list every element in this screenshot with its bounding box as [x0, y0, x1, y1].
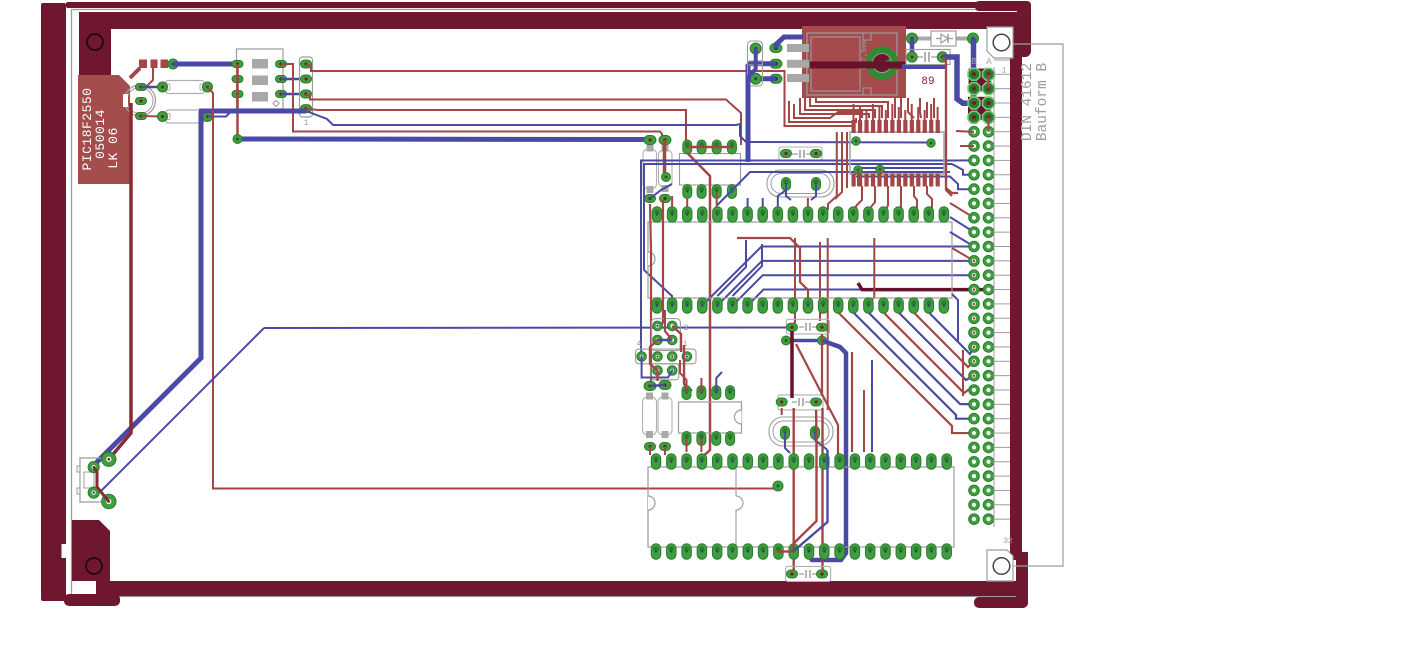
wire [208, 112, 232, 117]
wire [716, 372, 722, 393]
wire [827, 238, 829, 410]
capacitor C10 outline [786, 319, 829, 334]
svg-text:LK 06: LK 06 [106, 127, 121, 169]
wire [199, 109, 306, 114]
wire [908, 98, 914, 118]
frame top thin strip [66, 2, 1006, 8]
frame top bar [79, 12, 1019, 29]
header JP1 pad 1 [232, 61, 243, 68]
pad [644, 136, 656, 145]
pad [781, 150, 792, 158]
regulator VR1 pour [802, 26, 906, 98]
label 1 [683, 340, 688, 349]
ic IC2 pads top [682, 386, 735, 400]
label B [971, 57, 977, 67]
wire [929, 313, 974, 354]
crystal Q1 pad 1 [136, 84, 147, 91]
pad [787, 570, 798, 578]
wire [306, 111, 740, 125]
ic IC1 pads bottom [652, 298, 948, 314]
pad [782, 178, 821, 191]
header JP2 pads bottom [683, 185, 737, 199]
wire [900, 186, 902, 210]
svg-text:1: 1 [304, 119, 309, 128]
wire [786, 184, 791, 200]
wire [777, 550, 792, 552]
header JP5 pads [653, 366, 677, 376]
wire [740, 124, 929, 143]
ic U2 outline [850, 132, 944, 174]
wire [94, 467, 109, 501]
label 2 [684, 324, 689, 333]
din X2 pin lines [994, 67, 1010, 527]
wire [306, 109, 687, 147]
frame top-left corner block [79, 12, 111, 79]
ic IC3 pads bottom [651, 544, 951, 560]
wire [828, 132, 837, 210]
frame right bar [1010, 28, 1022, 560]
capacitor C2 outline [659, 145, 673, 193]
diode D1 outline [931, 31, 956, 46]
mount hole top [993, 34, 1010, 51]
silkscreen text PIC18F2550 [80, 87, 95, 170]
header JP2 pads top [683, 140, 737, 154]
wire [960, 145, 974, 147]
wire [642, 357, 673, 378]
wire [717, 172, 950, 205]
header JP1 pad 5 [276, 76, 287, 83]
resistor R1 outline [162, 81, 208, 94]
pad [770, 59, 782, 68]
wire [856, 177, 974, 190]
wire [672, 190, 808, 207]
wire [805, 98, 875, 118]
wire [776, 37, 803, 48]
wire [306, 94, 741, 145]
wire [819, 242, 821, 321]
wire [920, 98, 921, 118]
wire [910, 39, 915, 58]
pad [750, 43, 761, 54]
header JP1 hole 1 [252, 59, 268, 69]
wire [737, 238, 808, 301]
wire [94, 328, 264, 493]
wire [971, 39, 977, 104]
node pad [168, 59, 178, 69]
din X2 pour block 1 [969, 69, 992, 92]
crystal Q3 outline [769, 417, 833, 446]
wire [851, 352, 853, 452]
ic U2 pads bottom [852, 174, 940, 187]
wire [933, 98, 935, 118]
wire [173, 62, 237, 67]
wire [863, 390, 865, 452]
header JP1 outline [237, 49, 284, 109]
wire [943, 57, 953, 196]
ic IC1 pads top [652, 207, 948, 223]
via [927, 139, 935, 147]
wire [914, 313, 974, 367]
pad [776, 398, 787, 406]
wire [950, 203, 974, 218]
header JP1 hole 3 [252, 92, 268, 102]
wire [793, 450, 828, 552]
via [876, 165, 884, 173]
mounting hole H1 [87, 34, 103, 50]
label h17.5mm [861, 40, 869, 69]
wire [835, 132, 842, 199]
silkscreen text LK 06 [106, 127, 121, 169]
wire [884, 313, 974, 393]
wire [717, 240, 746, 296]
header JP4 pads [637, 352, 692, 362]
mounting hole H2 [86, 558, 102, 574]
pad [907, 52, 917, 62]
wire [857, 170, 859, 186]
pad [817, 323, 828, 331]
pad [645, 195, 656, 203]
wire [658, 339, 673, 342]
wire [869, 238, 874, 303]
wire [811, 184, 816, 200]
capacitor C9 outline [906, 50, 950, 65]
label pin1 [1002, 67, 1007, 76]
frame left bar [41, 3, 66, 601]
pad [968, 33, 979, 44]
wire [956, 130, 974, 133]
via [233, 135, 242, 144]
header SV1 pad 2 [301, 75, 312, 83]
pad [907, 33, 918, 44]
header SV1 pad 3 [301, 90, 312, 98]
wire [141, 115, 162, 118]
regulator VR1 hole [866, 47, 899, 80]
wire [146, 68, 153, 87]
silkscreen label block [78, 75, 130, 184]
usb X1 pad 1 [102, 452, 116, 466]
svg-text:DIN 41612: DIN 41612 [1020, 63, 1036, 141]
header JP4 outline [636, 349, 697, 364]
via [852, 137, 860, 145]
label A [986, 57, 992, 67]
capacitor C5 outline [643, 393, 657, 439]
via [782, 336, 827, 345]
pad [811, 398, 822, 406]
pad [781, 426, 820, 439]
crystal Q1 pad 2 [136, 98, 147, 105]
pad [770, 44, 782, 53]
wire [748, 76, 776, 81]
wire [796, 344, 838, 458]
wire [821, 408, 823, 574]
crystal Q2 outline [767, 170, 834, 197]
pad [817, 570, 828, 578]
wire [858, 283, 989, 290]
capacitor C4 outline [748, 41, 763, 86]
resistor R2 outline [162, 110, 208, 123]
frame bottom-right corner [974, 552, 1028, 608]
wire [786, 339, 822, 343]
wire [821, 334, 823, 396]
label pin32 [1003, 537, 1013, 546]
wire [871, 360, 873, 452]
wire [141, 86, 162, 89]
pad [787, 323, 798, 331]
wire [927, 186, 932, 210]
mount hole bottom [993, 558, 1010, 575]
wire [644, 164, 952, 302]
pad [660, 443, 671, 451]
wire [660, 200, 663, 328]
frame left bar notch [62, 544, 68, 558]
svg-text:1: 1 [1002, 67, 1007, 76]
regulator VR1 lead 3 [787, 74, 809, 82]
wire [109, 103, 131, 459]
pad [937, 52, 947, 62]
wire [816, 98, 888, 118]
wire [650, 385, 665, 386]
header JP2 outline [680, 154, 741, 186]
wire [748, 290, 974, 306]
frame bottom-left corner block [72, 520, 110, 581]
header JP1 hole 2 [252, 76, 268, 86]
svg-text:4: 4 [637, 340, 642, 349]
wire [641, 161, 955, 357]
via [854, 166, 862, 174]
din X2 pads rows 5-32 [969, 126, 994, 524]
din X2 text [1020, 63, 1051, 142]
wire [900, 94, 902, 118]
wire [748, 49, 756, 88]
wire [700, 378, 702, 393]
wire [871, 186, 875, 207]
wire [700, 439, 702, 453]
resistor R2 pad R [203, 112, 213, 122]
wire [781, 408, 783, 415]
capacitor C6 outline [658, 393, 672, 439]
pad [773, 481, 783, 491]
wire [785, 433, 790, 453]
frame left foot [64, 594, 120, 606]
crystal Q1 pad 3 [136, 113, 147, 120]
regulator VR1 lead 2 [787, 60, 809, 68]
wire [810, 98, 882, 118]
header JP1 pad 3 [232, 91, 243, 98]
wire [665, 310, 672, 340]
wire [854, 313, 974, 419]
wire [800, 98, 869, 118]
mount pad top [987, 27, 1013, 58]
wire [987, 117, 989, 132]
pad [660, 195, 671, 203]
svg-text:2: 2 [684, 324, 689, 333]
usb X1 pad 3 [88, 487, 99, 498]
via [662, 173, 671, 182]
din X2 pour block 2 [968, 97, 991, 120]
wire [943, 57, 975, 103]
din X2 outline [994, 44, 1063, 566]
smd pads LED [139, 60, 168, 69]
wire [281, 64, 662, 140]
capacitor C3 outline [779, 147, 822, 161]
wire [748, 61, 776, 66]
wire [902, 64, 945, 69]
svg-text:32: 32 [1003, 537, 1013, 546]
wire [952, 294, 958, 342]
wire [1013, 565, 1063, 567]
label 89 [921, 76, 934, 88]
wire [790, 331, 794, 398]
frame bottom bar [96, 581, 1018, 596]
regulator VR1 lead 1 [787, 44, 809, 52]
usb X1 pad 2 [88, 462, 99, 473]
ic IC3 pads top [651, 454, 951, 470]
wire [839, 313, 974, 433]
pad [811, 150, 822, 158]
wire [663, 140, 667, 177]
wire [281, 93, 306, 96]
header JP1 pad 6 [276, 91, 287, 98]
wire [955, 159, 974, 161]
wire [879, 170, 881, 187]
wire [702, 247, 974, 306]
wire [208, 87, 779, 489]
svg-text:Bauform B: Bauform B [1035, 63, 1051, 142]
silkscreen text 050014 [93, 109, 108, 159]
wire [792, 410, 817, 552]
header SV1 pad 4 [301, 105, 312, 113]
wire [236, 64, 239, 139]
wire [306, 64, 785, 99]
wire [810, 62, 906, 69]
wire [846, 132, 848, 188]
wire [899, 313, 974, 380]
resistor R1 pad R [203, 82, 213, 92]
wire [687, 146, 732, 149]
wire [856, 167, 944, 169]
header JP1 mark [273, 101, 279, 107]
label 4 [637, 340, 642, 349]
pad [659, 381, 671, 390]
pad [770, 74, 782, 83]
wire [716, 192, 718, 211]
resistor R1 pad L [158, 82, 168, 92]
pad [645, 443, 656, 451]
wire [952, 248, 974, 261]
wire [789, 101, 856, 122]
frame top-right elbow [975, 1, 1031, 57]
header JP3 outline [651, 319, 680, 351]
wire [717, 261, 974, 306]
header SV1 pad 1 [301, 60, 312, 68]
wire [686, 439, 688, 453]
header JP3 pads [653, 321, 677, 345]
wire [869, 313, 974, 404]
wire [281, 78, 306, 81]
wire [950, 217, 974, 232]
usb X1 outline [77, 458, 102, 502]
wire [856, 186, 862, 212]
wire [733, 275, 975, 305]
pad [644, 382, 656, 391]
wire [94, 111, 201, 467]
wire [946, 62, 958, 193]
crystal Q1 outline [123, 85, 156, 116]
wire [238, 137, 651, 143]
capacitor C8 outline [786, 566, 831, 581]
ic IC2 pads bottom [682, 432, 735, 446]
wire [794, 104, 862, 118]
wire [950, 232, 974, 247]
wire [130, 68, 140, 78]
pad [659, 136, 671, 145]
pad [750, 73, 761, 84]
wire [962, 350, 964, 396]
resistor R2 pad L [158, 112, 168, 122]
wire [792, 408, 794, 574]
wire [664, 447, 666, 456]
ic IC1 outline [648, 222, 952, 298]
svg-text:B: B [971, 57, 977, 67]
header SV1 outline [300, 57, 313, 117]
wire [680, 360, 687, 393]
wire [746, 64, 751, 162]
wire [926, 102, 928, 118]
header JP5 outline [651, 364, 679, 380]
wire [687, 153, 710, 457]
ic IC3 outline [648, 467, 954, 547]
svg-text:89: 89 [921, 76, 934, 88]
wire [914, 186, 917, 210]
label 1 [304, 119, 309, 128]
svg-text:A: A [986, 57, 992, 67]
header JP1 pad 2 [232, 76, 243, 83]
wire [650, 184, 672, 199]
ic U2 pads top [852, 104, 940, 133]
wire [649, 447, 651, 456]
wire [650, 204, 651, 386]
wire [672, 326, 681, 352]
mount pad bottom [987, 550, 1013, 581]
wire [807, 341, 846, 561]
wire [733, 244, 763, 296]
header JP1 pad 4 [276, 61, 287, 68]
capacitor C1 outline [643, 145, 657, 194]
wire [264, 327, 792, 330]
wire [650, 340, 658, 381]
wire [815, 433, 828, 450]
wire [894, 98, 896, 118]
board dimension outline [72, 10, 1018, 597]
wire [988, 74, 990, 88]
din X2 pads rows 1-4 [968, 68, 994, 123]
ic IC2 outline [679, 402, 742, 433]
wire [886, 186, 888, 210]
regulator VR1 outline [807, 33, 897, 95]
wire [792, 238, 795, 327]
wire [785, 99, 853, 126]
diode D1 leads [912, 37, 973, 41]
wire [952, 164, 974, 175]
wire [684, 345, 692, 391]
capacitor C7 outline [778, 395, 823, 410]
usb X1 pad 4 [102, 494, 116, 508]
ic IC3 inner outline [736, 468, 743, 545]
